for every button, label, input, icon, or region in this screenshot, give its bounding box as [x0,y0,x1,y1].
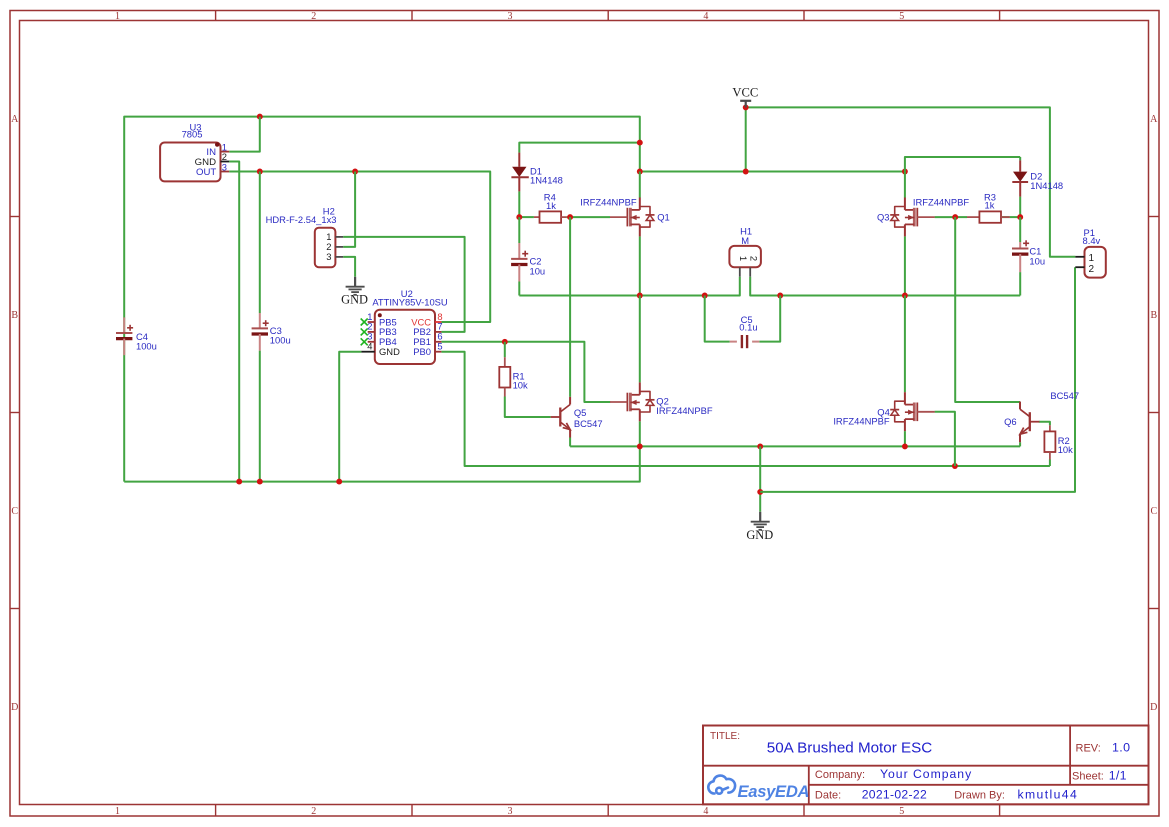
svg-text:100u: 100u [136,340,157,351]
transistor Q5 BC547 [551,397,570,438]
svg-text:100u: 100u [270,334,291,345]
svg-text:kmutlu44: kmutlu44 [1018,788,1079,802]
wire: U2 GND pin to ground bus [339,352,361,482]
svg-text:3: 3 [508,806,513,817]
resistor R4 [534,211,567,222]
svg-text:1k: 1k [985,199,995,210]
label R3 1k [984,192,996,211]
junction: PB1 / R1 [502,339,508,345]
junction dots: R3 row [952,214,1023,220]
label C3 100u [270,325,291,345]
svg-text:50A Brushed Motor ESC: 50A Brushed Motor ESC [767,740,932,757]
svg-text:ATTINY85V-10SU: ATTINY85V-10SU [372,296,448,307]
wire: R4 row (D1 cathode - R4 - Q1 gate) [519,191,610,217]
junction dots: 5V rail [257,169,358,175]
label Q2 [656,395,713,416]
svg-text:2: 2 [1089,264,1095,275]
svg-text:TITLE:: TITLE: [710,731,740,742]
svg-text:5: 5 [899,806,904,817]
capacitor C4 [116,317,133,355]
EasyEDA logo [708,776,809,801]
wire: high-side drain rail [640,171,905,173]
svg-text:5: 5 [899,11,904,22]
label R1 10k [513,371,528,391]
svg-text:2: 2 [748,256,759,261]
wire: H2 pin2 to 5V rail [343,172,355,247]
wire: U2 PB1 net to Q2 gate [441,342,610,402]
diode D2 1N4148 [1012,160,1028,196]
label C1 10u [1029,246,1045,267]
svg-text:10u: 10u [530,266,546,277]
svg-text:Sheet:: Sheet: [1072,771,1104,783]
svg-text:10k: 10k [513,380,528,391]
svg-text:IRFZ44NPBF: IRFZ44NPBF [656,405,713,416]
svg-text:1/1: 1/1 [1109,769,1127,783]
wire: Q2 drain [639,296,641,383]
wire: Q4 drain [904,296,906,393]
svg-text:PB0: PB0 [413,346,431,357]
label Q1 [580,197,669,223]
svg-text:EasyEDA: EasyEDA [738,782,810,801]
resistor R3 [967,211,1010,222]
svg-text:D: D [1150,702,1157,713]
label Q4 [833,406,890,426]
svg-text:Q6: Q6 [1004,416,1017,427]
wire: C1 top lead [1019,217,1021,242]
svg-text:Date:: Date: [815,790,841,802]
transistor Q6 BC547 [1020,402,1039,443]
svg-text:GND: GND [379,346,400,357]
svg-text:Company:: Company: [815,769,865,781]
label D1 1N4148 [530,165,563,185]
ground symbol (main) [746,512,773,542]
wire: Q4 gate to PB0 [935,412,955,466]
svg-text:1: 1 [738,256,749,261]
svg-text:1N4148: 1N4148 [1030,180,1063,191]
resistor R2 [1044,425,1055,459]
wire: source bus to ground symbol [759,446,761,511]
svg-text:1: 1 [115,11,120,22]
svg-text:8.4v: 8.4v [1083,235,1101,246]
svg-text:2021-02-22: 2021-02-22 [862,788,927,802]
junction dots: source bus [637,443,908,449]
capacitor C2 [511,243,528,282]
wire: H2 pin1 to U2 PB2 [343,237,464,332]
capacitor C5 [730,335,760,348]
svg-text:OUT: OUT [196,167,216,178]
label C2 10u [530,256,546,277]
svg-text:1k: 1k [546,200,556,211]
svg-text:IRFZ44NPBF: IRFZ44NPBF [833,415,890,426]
svg-text:BC547: BC547 [1050,390,1079,401]
svg-text:M: M [741,235,749,246]
svg-text:VCC: VCC [732,86,758,100]
wire: right motor terminal bus [750,236,1020,295]
wire: U3 pin1 IN [229,117,260,152]
wire: Q1 drain [639,172,641,198]
svg-text:Q5: Q5 [574,407,587,418]
wire: Q6 collector to R3 node [955,217,1020,402]
svg-text:C: C [11,506,18,517]
junction dots: drain rail [637,169,908,175]
label R4 1k [544,192,556,212]
wire: VIN top rail [124,117,640,482]
wire: U2 PB0 net [441,352,1050,466]
svg-text:10u: 10u [1029,255,1045,266]
svg-text:GND: GND [746,528,773,542]
svg-text:C: C [1150,506,1157,517]
svg-text:10k: 10k [1058,444,1073,455]
label Q5 BC547 [574,407,603,429]
svg-text:3: 3 [222,162,227,173]
wire: P1 pin2 to ground net [760,267,1075,492]
svg-text:D: D [11,702,18,713]
wire: D1 anode branch [519,143,640,153]
svg-text:3: 3 [326,251,331,262]
svg-text:2: 2 [222,151,227,162]
junction dots: right motor bus [777,293,908,299]
label P1 8.4v [1083,227,1101,246]
wire: D2 anode branch [905,157,1020,172]
wire: R1 leads [505,342,551,417]
wire: C3 branch [259,172,261,482]
wire: Q6 base resistor R2 leads [1039,422,1050,466]
svg-text:1.0: 1.0 [1112,741,1130,755]
label H2 HDR-F-2.54_1x3 [266,206,337,225]
wire: Q3 drain [904,172,906,198]
voltage regulator U3 7805 [160,142,229,182]
connector P1 8.4v battery [1075,247,1106,278]
junction: top rail / D1 [257,114,643,146]
svg-text:1N4148: 1N4148 [530,175,563,186]
svg-text:7805: 7805 [182,129,203,140]
svg-text:1: 1 [115,806,120,817]
wire: R3 row (Q3 gate - R3 - D2 cathode) [935,197,1021,218]
wire: ground bus [124,446,640,481]
wire: VCC stem and rail to P1 [746,107,1076,256]
wire: C5 snubber loop [705,296,781,342]
junction: VCC [743,104,749,110]
net label VCC power symbol [732,86,758,108]
svg-text:HDR-F-2.54_1x3: HDR-F-2.54_1x3 [266,214,337,225]
svg-text:4: 4 [703,11,708,22]
wire: H2 pin3 to ground symbol [343,257,355,277]
connector H2 HDR-F-2.54_1x3 [315,228,343,268]
svg-text:2: 2 [311,806,316,817]
ground symbol (H2) [341,277,368,307]
svg-text:1: 1 [1089,253,1095,264]
wire: U3 pin2 to ground bus [229,162,239,482]
wire: 5V rail from U3 OUT to U2 VCC [229,172,490,323]
svg-text:REV:: REV: [1076,743,1101,755]
MOSFET Q1 IRFZ44NPBF [610,198,655,237]
wire: C2 bottom to left motor bus [518,282,520,296]
microcontroller U2 ATTINY85V-10SU [361,310,443,364]
svg-text:IRFZ44NPBF: IRFZ44NPBF [580,197,637,208]
svg-text:Q1: Q1 [657,211,670,222]
capacitor C3 [252,313,269,351]
wire: low-side source bus [570,421,1020,446]
svg-text:B: B [11,310,18,321]
svg-text:4: 4 [703,806,708,817]
label Q3 [877,197,969,223]
svg-text:Q3: Q3 [877,212,890,223]
svg-text:Your Company: Your Company [880,767,972,781]
wire: Q5 collector to R4 node [569,217,571,397]
wire: Q2 gate stub [584,401,610,403]
svg-text:Drawn By:: Drawn By: [954,790,1005,802]
svg-text:BC547: BC547 [574,418,603,429]
svg-text:A: A [1150,114,1158,125]
label H1 M [740,226,752,246]
junction dots: R4 row [516,214,573,220]
svg-text:GND: GND [341,292,368,306]
motor connector H1 [729,246,761,277]
label D2 1N4148 [1030,171,1063,191]
svg-text:0.1u: 0.1u [739,322,757,333]
wire: left motor terminal bus [519,236,740,295]
resistor R1 [499,357,510,396]
svg-text:5: 5 [437,341,442,352]
junction: PB0 / Q4 gate [952,463,958,469]
junction dots: left motor bus [637,293,708,299]
svg-text:4: 4 [367,341,372,352]
junction dots: ground bus [236,479,342,485]
label R2 10k [1058,435,1073,455]
diode D1 1N4148 [511,153,528,192]
svg-text:IRFZ44NPBF: IRFZ44NPBF [913,197,970,208]
svg-text:B: B [1150,310,1157,321]
svg-text:A: A [11,114,19,125]
label C5 0.1u [739,314,757,333]
MOSFET Q4 IRFZ44NPBF [890,392,935,431]
wire: C2 top lead [518,217,520,243]
junction: ground stem [757,489,763,495]
svg-text:3: 3 [508,11,513,22]
MOSFET Q3 IRFZ44NPBF [890,198,935,237]
label Q6 BC547 [1004,390,1079,427]
MOSFET Q2 IRFZ44NPBF [610,382,655,421]
svg-text:2: 2 [311,11,316,22]
capacitor C1 [1012,240,1029,272]
label C4 100u [136,331,157,351]
label U2 ATTINY85V-10SU [372,288,448,307]
title block [703,726,1149,805]
label U3 [182,122,203,140]
wire: C1 bottom to right motor bus [1019,272,1021,295]
